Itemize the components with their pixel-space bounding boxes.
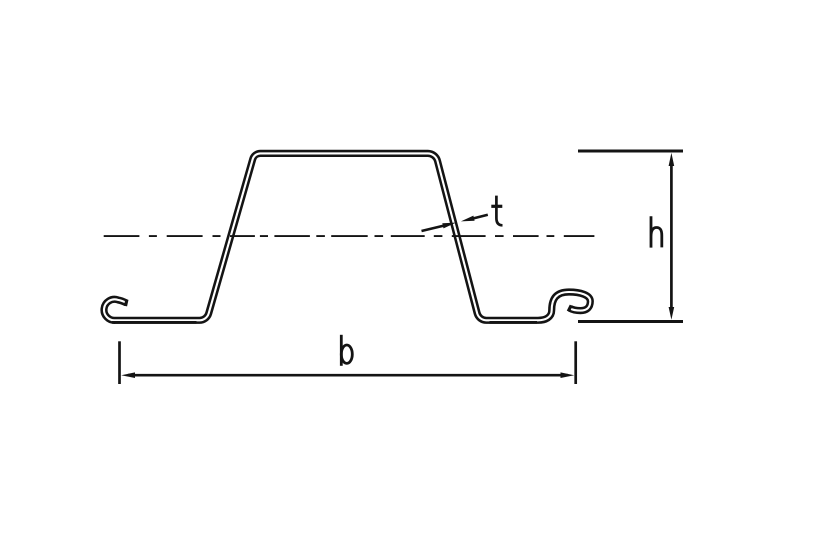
h dimension vertical line <box>670 160 673 312</box>
t dimension right arrow line <box>470 215 488 219</box>
b label <box>340 335 343 366</box>
h top arrowhead <box>669 153 675 166</box>
left hook tip end cap <box>126 300 127 307</box>
left flange heavy bottom edge <box>112 321 197 324</box>
right flange heavy bottom edge <box>490 321 538 324</box>
b dimension right extension line <box>574 341 577 384</box>
sheet pile profile outer stroke <box>104 153 590 320</box>
h dimension top extension line <box>578 150 683 153</box>
t label <box>496 196 502 226</box>
b left arrowhead <box>121 372 135 378</box>
sheet pile profile inner white gap <box>104 153 590 320</box>
right curl tip end cap <box>568 305 571 311</box>
h dimension bottom extension line <box>578 320 683 323</box>
b right arrowhead <box>561 372 575 378</box>
t dimension left arrow line <box>422 225 449 231</box>
h label <box>651 216 662 247</box>
b dimension left extension line <box>118 341 121 384</box>
b dimension line <box>128 374 568 377</box>
dash-dot centerline <box>104 235 595 237</box>
h bottom arrowhead <box>669 307 675 320</box>
